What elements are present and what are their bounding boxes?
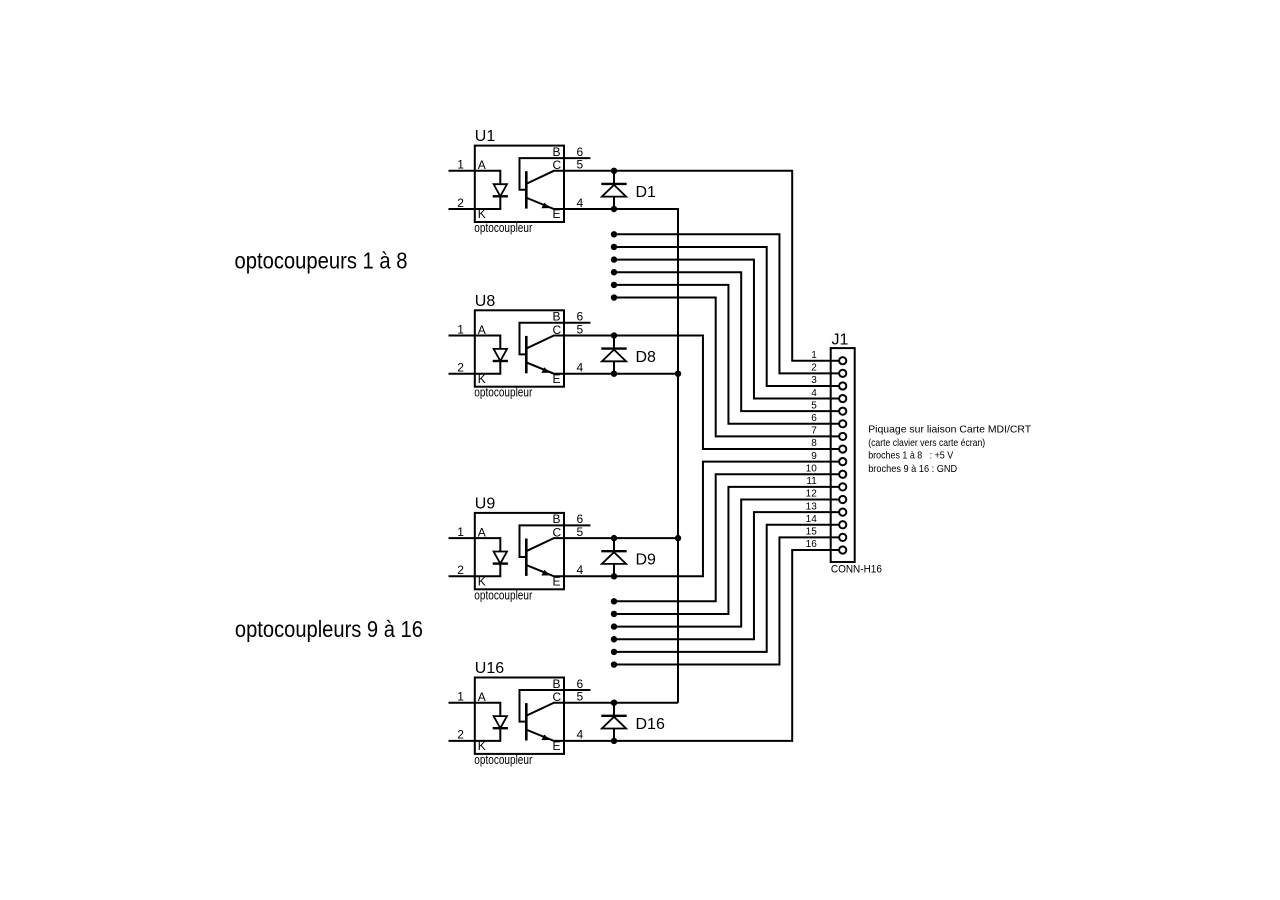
svg-text:D1: D1 bbox=[636, 184, 657, 201]
junction common vertical at U9 pin5 bbox=[675, 535, 681, 541]
svg-text:1: 1 bbox=[457, 322, 464, 336]
svg-text:broches 1 à 8 : +5 V: broches 1 à 8 : +5 V bbox=[868, 450, 953, 462]
svg-text:C: C bbox=[553, 526, 562, 540]
svg-text:1: 1 bbox=[811, 350, 817, 361]
svg-text:5: 5 bbox=[577, 525, 584, 539]
U8 phototransistor emitter with arrow bbox=[527, 363, 564, 374]
junction tap point lower 1 bbox=[611, 598, 617, 604]
U16 body box bbox=[475, 678, 564, 754]
U9 pin 2 stub wire (cathode) bbox=[449, 575, 475, 577]
U8 internal LED cathode wire bbox=[475, 361, 501, 374]
wire tap optocoupler 11 pin4 to J1 pin 11 bbox=[614, 487, 839, 614]
wire tap optocoupler 15 pin4 to J1 pin 15 bbox=[614, 537, 839, 664]
J1 pin 3 circle bbox=[839, 382, 846, 389]
optocoupler U8 bbox=[449, 293, 591, 400]
svg-text:4: 4 bbox=[577, 196, 584, 210]
junction D1 anode node bbox=[611, 206, 617, 212]
U1 pin 2 stub wire (cathode) bbox=[449, 208, 475, 210]
svg-text:6: 6 bbox=[811, 413, 817, 424]
J1 pin 11 circle bbox=[839, 483, 846, 490]
wire U9 pin4 to J1 pin 9 bbox=[564, 462, 839, 577]
svg-text:optocoupleurs 9 à 16: optocoupleurs 9 à 16 bbox=[235, 616, 423, 642]
J1 pin 1 circle bbox=[839, 357, 846, 364]
U1 pin 1 stub wire (anode) bbox=[449, 170, 475, 172]
wire tap optocoupler 13 pin4 to J1 pin 13 bbox=[614, 512, 839, 639]
svg-text:D16: D16 bbox=[636, 716, 665, 733]
svg-text:2: 2 bbox=[457, 196, 464, 210]
svg-text:5: 5 bbox=[577, 690, 584, 704]
svg-text:K: K bbox=[478, 739, 486, 753]
J1 pin 15 circle bbox=[839, 534, 846, 541]
U1 internal LED diode symbol bbox=[494, 184, 507, 196]
U1 internal LED anode wire bbox=[475, 171, 501, 184]
svg-text:U9: U9 bbox=[475, 495, 496, 512]
junction D1 cathode node bbox=[611, 168, 617, 174]
svg-text:E: E bbox=[553, 207, 561, 221]
U8 phototransistor collector bbox=[527, 336, 564, 349]
svg-text:E: E bbox=[553, 739, 561, 753]
svg-text:10: 10 bbox=[806, 463, 818, 474]
U1 body box bbox=[475, 146, 564, 222]
U16 internal LED diode symbol bbox=[494, 716, 507, 728]
J1 pin 16 circle bbox=[839, 546, 846, 553]
svg-text:Piquage sur liaison Carte MDI/: Piquage sur liaison Carte MDI/CRT bbox=[868, 424, 1032, 436]
svg-text:2: 2 bbox=[457, 361, 464, 375]
junction tap point lower 3 bbox=[611, 623, 617, 629]
optocoupler U1 bbox=[449, 128, 591, 235]
junction D9 anode node bbox=[611, 573, 617, 579]
J1 body box bbox=[831, 348, 855, 562]
U9 phototransistor base bar bbox=[525, 539, 528, 576]
svg-text:A: A bbox=[478, 690, 486, 704]
wire U8 pin4 to common vertical bbox=[564, 373, 678, 375]
junction tap point upper 2 bbox=[611, 244, 617, 250]
U1 phototransistor collector bbox=[527, 171, 564, 184]
svg-text:2: 2 bbox=[457, 728, 464, 742]
U8 internal LED anode wire bbox=[475, 336, 501, 349]
svg-text:B: B bbox=[553, 145, 561, 159]
junction D16 anode node bbox=[611, 738, 617, 744]
J1 pin 4 circle bbox=[839, 395, 846, 402]
junction tap point lower 6 bbox=[611, 661, 617, 667]
svg-text:12: 12 bbox=[806, 489, 818, 500]
U1 phototransistor base bar bbox=[525, 171, 528, 208]
wire U16 pin4 to J1 pin 16 bbox=[564, 550, 839, 741]
svg-text:7: 7 bbox=[811, 426, 817, 437]
svg-text:J1: J1 bbox=[832, 331, 849, 348]
U8 phototransistor base bar bbox=[525, 336, 528, 373]
junction tap point lower 4 bbox=[611, 636, 617, 642]
wire U9 pin5 to common vertical bbox=[564, 537, 678, 539]
svg-text:optocoupeurs 1 à 8: optocoupeurs 1 à 8 bbox=[235, 248, 408, 274]
svg-text:C: C bbox=[553, 323, 562, 337]
svg-text:5: 5 bbox=[811, 400, 817, 411]
U16 internal LED anode wire bbox=[475, 703, 501, 716]
svg-text:5: 5 bbox=[577, 322, 584, 336]
J1 pin 14 circle bbox=[839, 521, 846, 528]
svg-text:CONN-H16: CONN-H16 bbox=[831, 564, 882, 576]
wire tap optocoupler 2 pin5 to J1 pin 2 bbox=[614, 234, 839, 373]
wire tap optocoupler 4 pin5 to J1 pin 4 bbox=[614, 260, 839, 399]
svg-text:5: 5 bbox=[577, 158, 584, 172]
svg-text:E: E bbox=[553, 372, 561, 386]
junction tap point lower 2 bbox=[611, 611, 617, 617]
U1 internal LED cathode wire bbox=[475, 196, 501, 209]
U9 phototransistor emitter with arrow bbox=[527, 565, 564, 576]
svg-text:optocoupleur: optocoupleur bbox=[474, 588, 532, 602]
U16 phototransistor base bar bbox=[525, 703, 528, 740]
J1 pin 10 circle bbox=[839, 471, 846, 478]
svg-text:U16: U16 bbox=[475, 660, 504, 677]
wire U1 pin4 down common vertical to U16 pin5 level bbox=[564, 209, 678, 703]
svg-text:15: 15 bbox=[806, 527, 818, 538]
J1 pin 7 circle bbox=[839, 433, 846, 440]
wire U1 pin5 net +5V to J1 pin 1 bbox=[564, 171, 839, 361]
U9 phototransistor collector bbox=[527, 538, 564, 551]
U16 phototransistor collector bbox=[527, 703, 564, 716]
U16 internal LED cathode wire bbox=[475, 728, 501, 741]
note text block about J1 usage bbox=[868, 424, 1032, 475]
wire tap optocoupler 10 pin4 to J1 pin 10 bbox=[614, 474, 839, 601]
svg-text:A: A bbox=[478, 158, 486, 172]
svg-text:1: 1 bbox=[457, 158, 464, 172]
J1 pin 12 circle bbox=[839, 496, 846, 503]
svg-text:B: B bbox=[553, 677, 561, 691]
svg-text:K: K bbox=[478, 207, 486, 221]
svg-text:D9: D9 bbox=[636, 552, 657, 569]
U8 pin 2 stub wire (cathode) bbox=[449, 373, 475, 375]
U16 phototransistor emitter with arrow bbox=[527, 730, 564, 741]
J1 pin 8 circle bbox=[839, 445, 846, 452]
svg-text:4: 4 bbox=[577, 361, 584, 375]
svg-text:11: 11 bbox=[806, 476, 817, 487]
svg-text:C: C bbox=[553, 158, 562, 172]
wire tap optocoupler 6 pin5 to J1 pin 6 bbox=[614, 285, 839, 424]
svg-text:13: 13 bbox=[806, 501, 818, 512]
J1 pin 6 circle bbox=[839, 420, 846, 427]
svg-text:D8: D8 bbox=[636, 349, 657, 366]
svg-text:16: 16 bbox=[806, 539, 818, 550]
diode D16 bbox=[601, 703, 665, 741]
U8 internal LED diode symbol bbox=[494, 349, 507, 361]
U8 pin 1 stub wire (anode) bbox=[449, 335, 475, 337]
junction tap point lower 5 bbox=[611, 649, 617, 655]
U8 body box bbox=[475, 310, 564, 386]
wire U16 pin5 to common vertical bbox=[564, 702, 678, 704]
junction tap point upper 1 bbox=[611, 231, 617, 237]
svg-text:4: 4 bbox=[577, 563, 584, 577]
svg-text:A: A bbox=[478, 526, 486, 540]
svg-text:14: 14 bbox=[806, 514, 818, 525]
U9 internal LED cathode wire bbox=[475, 564, 501, 577]
svg-text:K: K bbox=[478, 575, 486, 589]
U9 pin 1 stub wire (anode) bbox=[449, 537, 475, 539]
wire tap optocoupler 3 pin5 to J1 pin 3 bbox=[614, 247, 839, 386]
svg-text:K: K bbox=[478, 372, 486, 386]
U8 phototransistor base wire from pin 6 bbox=[520, 323, 591, 355]
junction tap point upper 6 bbox=[611, 294, 617, 300]
J1 pin 9 circle bbox=[839, 458, 846, 465]
svg-text:4: 4 bbox=[577, 728, 584, 742]
svg-text:(carte clavier vers carte écra: (carte clavier vers carte écran) bbox=[868, 437, 985, 449]
junction tap point upper 5 bbox=[611, 282, 617, 288]
svg-text:B: B bbox=[553, 512, 561, 526]
optocoupler U16 bbox=[449, 660, 591, 767]
U9 internal LED diode symbol bbox=[494, 552, 507, 564]
junction tap point upper 4 bbox=[611, 269, 617, 275]
junction D9 cathode node bbox=[611, 535, 617, 541]
svg-text:4: 4 bbox=[811, 388, 817, 399]
diode D9 bbox=[601, 538, 656, 576]
svg-text:E: E bbox=[553, 575, 561, 589]
J1 pin 2 circle bbox=[839, 370, 846, 377]
svg-text:A: A bbox=[478, 323, 486, 337]
svg-text:optocoupleur: optocoupleur bbox=[474, 221, 532, 235]
U16 pin 2 stub wire (cathode) bbox=[449, 740, 475, 742]
junction D16 cathode node bbox=[611, 700, 617, 706]
wire tap optocoupler 5 pin5 to J1 pin 5 bbox=[614, 272, 839, 411]
svg-text:3: 3 bbox=[811, 375, 817, 386]
U9 phototransistor base wire from pin 6 bbox=[520, 525, 591, 557]
svg-text:1: 1 bbox=[457, 690, 464, 704]
svg-text:optocoupleur: optocoupleur bbox=[474, 386, 532, 400]
svg-text:optocoupleur: optocoupleur bbox=[474, 753, 532, 767]
diode D1 bbox=[601, 171, 656, 209]
J1 pin 5 circle bbox=[839, 408, 846, 415]
wire tap optocoupler 12 pin4 to J1 pin 12 bbox=[614, 500, 839, 627]
optocoupler U9 bbox=[449, 495, 591, 602]
wire tap optocoupler 7 pin5 to J1 pin 7 bbox=[614, 298, 839, 437]
svg-text:1: 1 bbox=[457, 525, 464, 539]
junction tap point upper 3 bbox=[611, 256, 617, 262]
U1 phototransistor emitter with arrow bbox=[527, 198, 564, 209]
svg-text:2: 2 bbox=[811, 363, 817, 374]
svg-text:U1: U1 bbox=[475, 128, 496, 145]
svg-text:9: 9 bbox=[811, 451, 817, 462]
U16 phototransistor base wire from pin 6 bbox=[520, 690, 591, 722]
svg-text:broches 9 à 16 : GND: broches 9 à 16 : GND bbox=[868, 463, 957, 475]
U9 internal LED anode wire bbox=[475, 538, 501, 551]
U1 phototransistor base wire from pin 6 bbox=[520, 158, 591, 190]
svg-text:C: C bbox=[553, 690, 562, 704]
svg-text:U8: U8 bbox=[475, 293, 496, 310]
junction D8 cathode node bbox=[611, 332, 617, 338]
svg-text:B: B bbox=[553, 310, 561, 324]
svg-text:8: 8 bbox=[811, 438, 817, 449]
connector J1 bbox=[806, 331, 882, 575]
wire tap optocoupler 14 pin4 to J1 pin 14 bbox=[614, 525, 839, 652]
svg-text:2: 2 bbox=[457, 563, 464, 577]
diode D8 bbox=[601, 336, 656, 374]
wire U8 pin5 to J1 pin 8 bbox=[564, 336, 839, 450]
junction D8 anode node bbox=[611, 371, 617, 377]
U16 pin 1 stub wire (anode) bbox=[449, 702, 475, 704]
junction common vertical at U8 pin4 bbox=[675, 371, 681, 377]
U9 body box bbox=[475, 513, 564, 589]
J1 pin 13 circle bbox=[839, 509, 846, 516]
